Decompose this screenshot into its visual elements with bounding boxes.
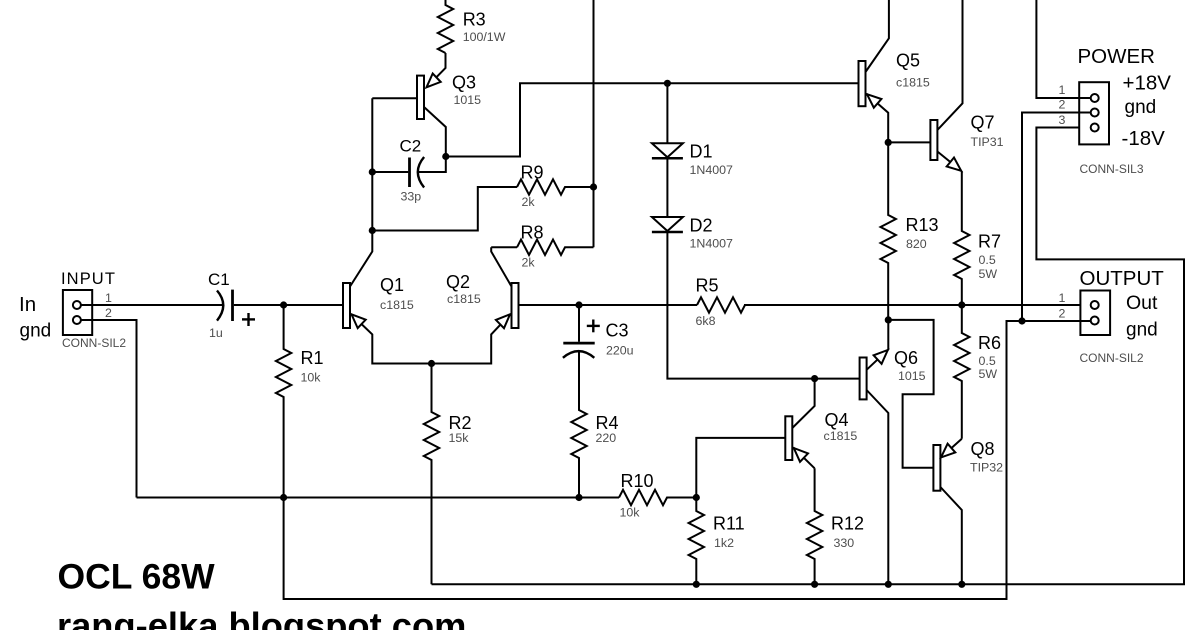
svg-text:Q3: Q3 [452,73,476,93]
svg-text:33p: 33p [401,190,422,204]
svg-text:0.5: 0.5 [979,354,996,368]
svg-text:R6: R6 [978,333,1001,353]
resistor R1 [276,305,291,498]
svg-text:2: 2 [1059,98,1066,112]
wire OUTPUT pin2 gnd [1022,320,1091,322]
svg-text:0.5: 0.5 [979,253,996,267]
transistor Q3 body [417,76,424,119]
svg-text:1k2: 1k2 [714,536,734,550]
node R1 bottom junction [280,494,287,501]
svg-text:R7: R7 [978,232,1001,252]
transistor Q8 emitter [941,439,962,458]
svg-text:5W: 5W [979,267,998,281]
svg-text:CONN-SIL2: CONN-SIL2 [1080,351,1144,365]
transistor Q1 collector [350,98,372,286]
connector J1 INPUT box [63,290,92,335]
svg-text:CONN-SIL3: CONN-SIL3 [1080,162,1144,176]
wire Q4 base leg [696,438,785,498]
svg-text:Q2: Q2 [446,272,470,292]
transistor Q1 body [343,283,350,328]
wire Q6 emitter node to Q8 base [888,320,933,468]
wire C1 to Q1 base [234,304,343,306]
wire C2 left [372,171,408,173]
connector J2 pin 1 circle [1091,301,1099,309]
node Q2 base / C3 junction [575,301,582,308]
capacitor C3 [578,305,580,342]
node R6/R7 output junction [958,301,965,308]
wire Q3 collector to Q5 base [446,83,859,156]
resistor R12 [807,468,822,584]
svg-text:6k8: 6k8 [696,314,716,328]
svg-text:INPUT: INPUT [61,270,116,288]
svg-text:Q5: Q5 [896,51,920,71]
transistor Q4 body [785,416,792,460]
svg-text:OUTPUT: OUTPUT [1080,267,1165,290]
wire Q7 base [888,141,930,143]
node Q4 collector / Q6 base junction [811,375,818,382]
wire gnd-feedback rail [137,497,620,499]
resistor R8 [517,240,594,255]
svg-text:R3: R3 [463,10,486,30]
svg-text:Q7: Q7 [971,113,995,133]
transistor Q4 emitter [793,448,814,469]
wire input pin2 to gnd rail [81,320,137,498]
wire R9 left leg [372,187,517,231]
wire POWER pin1 +18V [1036,0,1090,98]
connector J1 pin 1 circle [73,301,81,309]
svg-text:gnd: gnd [20,321,52,342]
svg-text:C3: C3 [606,321,629,341]
svg-text:+18V: +18V [1123,72,1172,95]
connector J3 pin 1 circle [1091,94,1099,102]
svg-text:Out: Out [1126,292,1158,314]
svg-text:R9: R9 [521,163,544,183]
connector J3 pin 3 circle [1091,124,1099,132]
svg-text:1015: 1015 [454,93,482,107]
connector J2 pin 2 circle [1091,317,1099,325]
svg-text:R11: R11 [713,514,745,534]
svg-text:TIP32: TIP32 [970,461,1003,475]
svg-text:Q8: Q8 [971,439,995,459]
transistor Q5 body [859,61,866,106]
svg-text:Q6: Q6 [894,348,918,368]
svg-text:2k: 2k [522,256,536,270]
svg-text:10k: 10k [301,371,322,385]
wire D1 to D2 [666,159,668,218]
svg-text:gnd: gnd [1126,320,1158,341]
svg-text:1N4007: 1N4007 [690,237,734,251]
wire D1 anode [666,83,668,143]
capacitor C2 [408,158,411,188]
transistor Q7 collector [937,0,962,130]
resistor R2 [424,364,439,585]
svg-text:R2: R2 [449,413,472,433]
svg-text:R4: R4 [596,413,619,433]
node Q5 emitter / Q7 base junction [885,139,892,146]
svg-text:R1: R1 [301,348,324,368]
wire feedback line from top [593,0,595,247]
svg-text:c1815: c1815 [896,76,930,90]
svg-text:2: 2 [105,306,112,320]
svg-text:D1: D1 [690,142,713,162]
resistor R9 [517,179,594,194]
svg-text:OCL 68W: OCL 68W [58,557,216,597]
svg-text:TIP31: TIP31 [971,135,1004,149]
transistor Q5 collector [866,0,889,72]
wire main node to R5 [579,304,697,306]
svg-text:R13: R13 [906,215,939,235]
node OUTPUT gnd junction [1018,317,1025,324]
svg-text:R10: R10 [621,471,654,491]
svg-text:15k: 15k [449,431,470,445]
svg-text:c1815: c1815 [380,298,414,312]
transistor Q8 collector [940,487,961,584]
wire C2 right to Q3 collector node [418,157,446,173]
transistor Q8 body [933,445,940,491]
svg-text:c1815: c1815 [824,429,858,443]
node R4 bottom junction [575,494,582,501]
svg-text:Q1: Q1 [380,275,404,295]
connector J3 POWER box [1079,82,1109,144]
svg-text:In: In [19,293,36,316]
svg-text:rang-elka.blogspot.com: rang-elka.blogspot.com [57,605,466,630]
resistor R6 [954,305,969,439]
wire Q3 base from Q1 collector [372,97,417,99]
resistor R5 [697,297,745,312]
wire -18V rail [432,128,1185,585]
transistor Q7 body [930,120,937,160]
transistor Q6 collector [867,390,889,584]
svg-text:220u: 220u [606,344,634,358]
svg-text:2: 2 [1059,307,1066,321]
node Q1/Q2 emitter tail junction [428,360,435,367]
node Q3 collector / C2 junction [442,153,449,160]
transistor Q6 body [860,358,867,400]
svg-text:5W: 5W [979,367,998,381]
node Q6 collector junction [885,581,892,588]
svg-text:POWER: POWER [1078,45,1155,68]
connector J2 OUTPUT box [1080,291,1110,336]
node R9/R8 feedback junction [590,183,597,190]
transistor Q4 collector [792,379,814,428]
node D1 top junction [664,80,671,87]
svg-text:1015: 1015 [898,369,926,383]
svg-text:1: 1 [105,291,112,305]
node Q8 collector junction [958,581,965,588]
capacitor C1 [217,291,223,321]
resistor R4 [571,351,586,498]
diode D1 [652,143,683,157]
svg-text:3: 3 [1059,113,1066,127]
transistor Q3 collector [424,107,446,157]
node R12 bottom junction [811,581,818,588]
transistor Q6 emitter [867,320,889,370]
svg-text:-18V: -18V [1122,127,1166,150]
svg-text:R8: R8 [521,223,544,243]
svg-text:220: 220 [596,431,617,445]
svg-text:R5: R5 [696,276,719,296]
wire D2 to Q6 base [667,232,859,378]
node R11 bottom junction [693,581,700,588]
svg-text:330: 330 [834,536,855,550]
transistor Q1 emitter [351,314,432,364]
svg-text:1: 1 [1059,291,1066,305]
svg-text:gnd: gnd [1125,97,1157,118]
transistor Q7 emitter [937,152,961,172]
svg-text:Q4: Q4 [825,410,849,430]
node R13 / Q6 emitter junction [885,316,892,323]
svg-text:1u: 1u [209,326,223,340]
svg-text:C1: C1 [208,270,230,289]
transistor Q2 collector [491,247,511,286]
connector J3 pin 2 circle [1091,109,1099,117]
transistor Q2 emitter [432,314,511,364]
resistor R11 [689,498,704,585]
node C1/R1 junction [280,301,287,308]
resistor R7 [954,171,969,305]
svg-text:820: 820 [906,237,927,251]
svg-text:R12: R12 [831,514,864,534]
svg-text:c1815: c1815 [447,292,481,306]
node R10/R11/Q4 junction [693,494,700,501]
wire ground return line [284,321,1022,599]
svg-text:C2: C2 [400,137,422,156]
diode D2 [652,217,683,231]
svg-text:100/1W: 100/1W [463,30,506,44]
resistor R10 [619,490,696,505]
svg-text:D2: D2 [690,216,713,236]
svg-text:2k: 2k [522,195,536,209]
wire Q2 base to main node [519,304,580,306]
resistor R13 [881,142,896,320]
wire R5 to output [744,304,1091,306]
node Q1 collector / C2 junction [369,168,376,175]
svg-text:10k: 10k [620,506,641,520]
wire input pin1 to C1 [81,304,224,306]
wire R8 left leg to Q2 collector [491,246,517,248]
resistor R3 [438,0,453,53]
node Q1 collector / R9 junction [369,227,376,234]
svg-text:CONN-SIL2: CONN-SIL2 [62,336,126,350]
transistor Q5 emitter [867,94,889,143]
wire POWER pin2 gnd [1022,113,1091,322]
connector J1 pin 2 circle [73,316,81,324]
svg-text:1N4007: 1N4007 [690,163,734,177]
transistor Q2 body [512,283,519,328]
transistor Q3 emitter from R3 [427,53,446,87]
svg-text:1: 1 [1059,83,1066,97]
